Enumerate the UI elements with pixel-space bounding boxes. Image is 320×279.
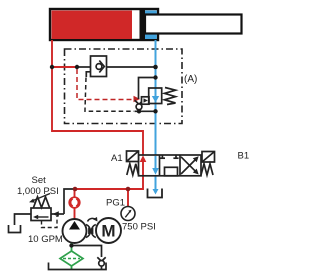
svg-text:1,000 PSI: 1,000 PSI: [17, 186, 59, 197]
svg-text:750 PSI: 750 PSI: [122, 222, 156, 233]
svg-text:B1: B1: [238, 151, 250, 162]
svg-text:10 GPM: 10 GPM: [28, 234, 63, 245]
svg-text:(A): (A): [184, 74, 197, 85]
svg-text:Set: Set: [32, 175, 47, 186]
svg-text:A1: A1: [111, 153, 123, 164]
svg-text:PG1: PG1: [106, 198, 125, 209]
svg-text:M: M: [101, 222, 115, 241]
